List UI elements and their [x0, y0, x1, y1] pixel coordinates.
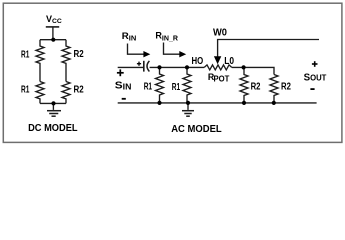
svg-text:R2: R2: [74, 49, 85, 60]
wire W0 wiper: [218, 40, 319, 57]
resistor R1 bottom-left: [36, 82, 44, 104]
resistor R1 top-left: [36, 40, 44, 82]
arrow W0 wiper head: [214, 56, 221, 64]
svg-text:SOUT: SOUT: [304, 71, 327, 83]
wire RPOT to R2 corner: [232, 67, 274, 74]
label plus SOUT: [312, 61, 318, 67]
resistor R1 ac-2: [183, 67, 191, 103]
resistor R2 ac-2: [270, 75, 278, 103]
resistor R1 ac-1: [156, 67, 164, 103]
node dot rail-R2a: [242, 65, 246, 69]
node dot gnd-R1b: [186, 101, 190, 105]
wire top junction bar: [40, 39, 66, 41]
svg-text:R2: R2: [281, 82, 291, 93]
wire ground rail: [118, 102, 317, 104]
resistor RPOT zigzag: [204, 65, 232, 70]
svg-text:R1: R1: [144, 82, 153, 93]
svg-text:R2: R2: [251, 82, 261, 93]
resistor R2 top-right: [62, 40, 70, 82]
arrow RIN: [128, 44, 144, 55]
wire VCC stem: [52, 27, 54, 40]
capacitor C right plate: [147, 61, 149, 72]
node DC ground junction dot: [51, 101, 55, 105]
node dot gnd-R1a: [157, 101, 161, 105]
node VCC junction dot: [51, 38, 55, 42]
ground DC: [52, 103, 54, 110]
label minus SOUT: [310, 88, 314, 90]
resistor R2 bottom-right: [62, 82, 70, 104]
power VCC bar: [46, 26, 59, 28]
ground AC: [187, 103, 189, 110]
svg-text:DC MODEL: DC MODEL: [28, 122, 78, 134]
node dot rail-R1a: [157, 65, 161, 69]
resistor R2 ac-1: [240, 67, 248, 103]
node dot gnd-R2a: [242, 101, 246, 105]
label minus SIN: [122, 98, 126, 100]
wire bottom junction bar: [40, 102, 66, 104]
svg-text:HO: HO: [192, 56, 204, 67]
node dot rail-R1b: [185, 65, 189, 69]
node dot gnd-R2b: [272, 101, 276, 105]
capacitor C left plate: [143, 61, 145, 72]
arrow RIN_R: [164, 43, 180, 55]
label plus cap: [137, 62, 141, 66]
svg-text:POT: POT: [214, 73, 230, 83]
svg-text:W0: W0: [213, 28, 227, 39]
svg-text:R2: R2: [74, 85, 85, 96]
label plus SIN: [117, 69, 124, 76]
svg-text:AC MODEL: AC MODEL: [171, 123, 222, 135]
wire rail cap to RPOT: [150, 66, 205, 68]
svg-text:L0: L0: [224, 56, 234, 67]
wire input top left: [118, 66, 144, 68]
svg-text:R1: R1: [21, 49, 30, 60]
svg-text:R1: R1: [21, 85, 30, 96]
svg-text:R1: R1: [172, 82, 181, 93]
